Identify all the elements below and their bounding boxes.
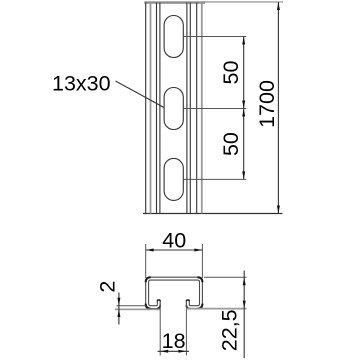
slot 3 (13x30 oblong hole) (164, 158, 183, 200)
svg-text:13x30: 13x30 (52, 72, 111, 96)
dimension line 22,5 (243, 271, 246, 359)
extension lines 40 (146, 244, 203, 278)
dimension line 18 (158, 350, 190, 353)
dimension text 22,5 (218, 309, 242, 351)
svg-text:1700: 1700 (255, 80, 279, 128)
slot 1 (13x30 oblong hole) (164, 16, 183, 58)
extension lines 2 (sheet thickness) (115, 306, 160, 310)
dimension text 40 (162, 229, 186, 253)
svg-text:22,5: 22,5 (218, 309, 242, 351)
extension line slot3 center (183, 178, 246, 180)
rail front view: vertical profile edge lines (146, 3, 202, 214)
dimension line 1700 (277, 2, 280, 214)
dimension text 18 (162, 329, 186, 353)
label 13x30 (52, 72, 111, 96)
svg-text:2: 2 (96, 281, 120, 293)
rail front view: bottom edge (143, 213, 282, 215)
leader line from 13x30 to slot 2 (116, 81, 165, 108)
svg-text:40: 40 (162, 229, 186, 253)
extension lines 22,5 (187, 277, 247, 308)
svg-text:50: 50 (219, 61, 243, 85)
dimension text 2 (96, 281, 120, 293)
extension line top (1700) (203, 1, 283, 3)
dimension line 40 (146, 249, 203, 252)
extension line slot2 center (183, 108, 246, 110)
dimension line 2 (117, 293, 120, 325)
slot 2 (13x30 oblong hole) (164, 88, 183, 130)
cross-section sheet profile (146, 277, 203, 308)
svg-text:18: 18 (162, 329, 186, 353)
extension lines 18 (160, 303, 186, 356)
svg-text:50: 50 (219, 132, 243, 156)
extension line slot1 center (183, 36, 246, 38)
rail front view: top cut edge (grey) (144, 1, 205, 4)
dimension text 50 (upper) (219, 61, 243, 85)
dimension text 1700 (255, 80, 279, 128)
dimension text 50 (lower) (219, 132, 243, 156)
dimension line 50 (both spans) (242, 37, 245, 180)
